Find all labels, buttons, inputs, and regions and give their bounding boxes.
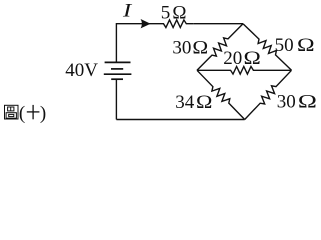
- battery 40V plate: long 2: [104, 73, 132, 75]
- wire: battery positive lead (vertical): [115, 23, 117, 62]
- resistor 50 ohm, top-right arm (node A to node R): [243, 24, 292, 71]
- wire: battery negative lead (vertical): [115, 79, 117, 119]
- svg-text:(: (: [19, 103, 25, 124]
- svg-text:30Ω: 30Ω: [172, 37, 208, 58]
- battery 40V plate: short 2: [111, 78, 123, 80]
- svg-text:20Ω: 20Ω: [223, 48, 261, 69]
- caption glyph: 圖 (figure) drawn with strokes: [5, 105, 19, 119]
- caption glyph: 十 (ten) drawn with strokes: [27, 105, 40, 119]
- resistor 5 ohm on top wire: [156, 20, 194, 28]
- current arrow I on top wire: [141, 19, 151, 28]
- wire: top lead from battery to current arrow / 5-ohm: [116, 23, 156, 25]
- wire: bottom from battery to node B: [116, 119, 244, 121]
- svg-text:34Ω: 34Ω: [175, 92, 212, 113]
- svg-text:40V: 40V: [65, 60, 98, 81]
- resistor 34 ohm, bottom-left arm (node L to node B): [197, 70, 245, 119]
- svg-text:): ): [40, 103, 46, 124]
- svg-text:5Ω: 5Ω: [161, 2, 187, 23]
- wire: top from 5-ohm to node A (bridge apex): [194, 23, 243, 25]
- battery 40V plate: long 1: [105, 61, 131, 63]
- svg-text:50Ω: 50Ω: [275, 35, 315, 56]
- battery 40V plate: short 1: [111, 68, 123, 70]
- resistor 20 ohm, bridge middle (node L to node R): [197, 67, 292, 75]
- resistor 30 ohm, top-left arm (node A to node L): [197, 24, 243, 71]
- svg-text:30Ω: 30Ω: [277, 92, 317, 113]
- resistor 30 ohm, bottom-right arm (node R to node B): [245, 70, 292, 119]
- svg-text:I: I: [122, 1, 134, 22]
